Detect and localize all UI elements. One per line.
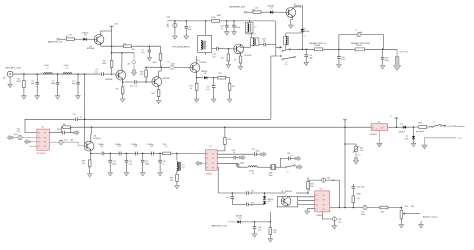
capacitor C26 shunt (159, 153, 161, 160)
svg-text:2.2k: 2.2k (82, 163, 85, 165)
row3 right wire (49, 141, 59, 143)
wire row3 to IF chain (217, 162, 238, 164)
svg-text:ARDUINO_D2: ARDUINO_D2 (48, 41, 63, 44)
switch S1 pole A (282, 50, 284, 52)
arrow (278, 46, 281, 48)
svg-text:C21: C21 (118, 146, 121, 148)
svg-text:P8: P8 (212, 168, 214, 170)
IC U4 LM386 (315, 191, 330, 212)
resonator X1 (270, 164, 272, 169)
resistor R11 emitter (196, 77, 198, 79)
gray return wire + GND (425, 138, 457, 145)
IC U1 MC145152 (37, 129, 49, 150)
svg-text:100k: 100k (102, 63, 106, 65)
svg-text:U3: U3 (378, 121, 380, 123)
row3 : off-page arrow left (24, 139, 30, 144)
resistor R15 47k base (227, 49, 229, 54)
resistor R9 emitter (122, 82, 124, 87)
svg-text:R17: R17 (252, 9, 255, 11)
svg-text:P1: P1 (38, 133, 40, 135)
svg-text:56p: 56p (31, 83, 34, 85)
svg-text:470u: 470u (361, 214, 365, 216)
svg-text:D11: D11 (239, 218, 242, 220)
bypass loop with bead (339, 35, 357, 50)
capacitor C11 100n (233, 21, 235, 25)
svg-text:R5: R5 (66, 36, 68, 38)
svg-text:1:10: 1:10 (17, 131, 21, 133)
ground stub (420, 221, 422, 225)
svg-text:C5: C5 (130, 85, 132, 87)
svg-text:560p: 560p (112, 163, 116, 165)
wire out (388, 126, 403, 128)
wire (86, 38, 94, 40)
svg-text:1u: 1u (291, 155, 293, 157)
wire + off-page arrow right (236, 157, 240, 159)
svg-text:MC145152: MC145152 (37, 153, 46, 155)
svg-text:4.7u: 4.7u (258, 230, 262, 232)
resistor R21 1.8k (176, 171, 178, 175)
svg-text:P8: P8 (44, 146, 46, 148)
wire collector to +5V rail (90, 134, 92, 141)
wire emitter node (91, 151, 101, 154)
svg-text:P4: P4 (323, 200, 325, 202)
svg-text:BFR90A: BFR90A (163, 77, 171, 80)
wire (207, 77, 218, 79)
wire long vertical (344, 127, 346, 207)
wire + off-page arrow right (256, 153, 260, 155)
resistor R5 1.2k (66, 38, 74, 41)
ferrite bead L4 (174, 21, 176, 23)
svg-text:ARDUINO_D10: ARDUINO_D10 (212, 224, 228, 227)
svg-text:GND: GND (458, 138, 463, 140)
inductor L8 4.7uH (248, 166, 257, 167)
svg-text:ANTENNE_ATV: ANTENNE_ATV (230, 5, 246, 8)
resistor R30 1.5k (145, 70, 148, 77)
inductor L1 3.3uH (44, 73, 53, 74)
off-page arrow left row (195, 161, 201, 166)
svg-text:R14: R14 (212, 17, 215, 19)
wire audio output line (330, 207, 402, 209)
svg-text:LM78L05: LM78L05 (370, 134, 378, 136)
svg-text:1u: 1u (233, 152, 235, 154)
capacitor C19 series ladder (102, 152, 104, 156)
svg-text:BC547B: BC547B (94, 138, 101, 140)
capacitor C15 470u (338, 49, 340, 56)
capacitor C37 470u series on output (363, 205, 367, 209)
diode D7 1N4148 (270, 11, 273, 14)
svg-text:10: 10 (234, 59, 236, 61)
wire to switch (266, 45, 279, 48)
bypass cap C36 under U4 (322, 212, 332, 219)
capacitor C9 100n (185, 21, 187, 27)
wire branch (345, 144, 356, 147)
transistor Q2 BFR90A (116, 70, 126, 80)
capacitor C14 470p (305, 49, 307, 55)
wire + resistor R13 to ground (226, 77, 230, 79)
svg-text:P5: P5 (38, 142, 40, 144)
wire y67 node (146, 66, 170, 68)
svg-text:C35: C35 (356, 187, 359, 189)
capacitor C21 series (119, 152, 121, 156)
inductor L2 3.3uH (63, 73, 72, 74)
wire Q3 collector (158, 71, 160, 77)
resistor R17 1.2k (253, 11, 261, 14)
capacitor C7 0.1u to ground (148, 46, 150, 50)
fuse F2 NE/BUZ CORELCOM (2) (355, 48, 365, 51)
svg-text:10uH: 10uH (171, 64, 176, 66)
svg-text:P4: P4 (212, 158, 214, 160)
off-page arrow right (296, 165, 302, 170)
svg-text:C34: C34 (327, 178, 330, 180)
wire to Q4 base (174, 66, 190, 68)
arrow + label (442, 125, 446, 127)
svg-text:1.2n: 1.2n (129, 163, 133, 165)
svg-text:GEN_ATV_CH3: GEN_ATV_CH3 (5, 67, 21, 70)
svg-text:P6: P6 (212, 163, 214, 165)
wire row1 right (49, 132, 62, 134)
svg-text:D6: D6 (204, 73, 206, 75)
wire T2-T3 link (251, 33, 253, 38)
diode D6 1N4148 (204, 76, 207, 79)
svg-text:P3: P3 (315, 200, 317, 202)
svg-text:Q9: Q9 (281, 191, 283, 193)
svg-text:L1: L1 (47, 68, 49, 70)
capacitor C33 1n series (246, 203, 248, 207)
wire + gray arrow down (355, 152, 357, 158)
wire (121, 152, 135, 154)
wire (261, 11, 270, 13)
svg-text:BATTERIE: BATTERIE (400, 50, 409, 53)
capacitor C10 1u (226, 21, 228, 25)
svg-text:A1: A1 (3, 77, 5, 80)
svg-text:R100R: R100R (356, 45, 362, 47)
wire (273, 11, 286, 13)
svg-text:P6: P6 (44, 142, 46, 144)
svg-text:P7: P7 (206, 168, 208, 170)
row4 : off-page arrow left (29, 145, 37, 147)
svg-text:L3: L3 (168, 61, 170, 63)
svg-text:1u: 1u (182, 167, 184, 169)
capacitor C1 56p (36, 74, 38, 82)
wire osc bottom line (232, 204, 245, 206)
diode D5 1N4148 (83, 38, 86, 41)
capacitor C8 4.7u (213, 78, 215, 86)
capacitor C4 0.1u series (102, 72, 104, 76)
inductor L6 vertical (284, 36, 289, 45)
svg-text:BUF990: BUF990 (285, 191, 292, 193)
wire Q6 collector to T3 (241, 44, 251, 47)
svg-text:L8: L8 (252, 173, 254, 175)
svg-text:2.2u: 2.2u (338, 222, 342, 224)
wire from U2 down (217, 167, 219, 193)
capacitor C16 470u (382, 49, 384, 57)
wire to Q2 base (103, 73, 116, 75)
svg-text:100n: 100n (256, 151, 260, 153)
resistor R12 horizontal (218, 76, 226, 79)
resistor R2 75R vertical (23, 74, 25, 81)
svg-text:560p: 560p (240, 163, 244, 165)
wire +5V long rail (71, 126, 371, 128)
capacitor C17 1u series (76, 118, 78, 122)
row2 : off-page arrow left (7, 135, 13, 140)
diode D8 vertical (301, 29, 304, 32)
wire (137, 152, 151, 154)
wire to switch (276, 166, 285, 168)
wire to Q6 base (218, 48, 234, 50)
svg-text:A4: A4 (71, 139, 73, 142)
resistor R25 10k vertical (307, 177, 309, 182)
wire osc top line (218, 192, 246, 194)
svg-text:10k: 10k (310, 186, 313, 188)
svg-text:LM386: LM386 (316, 215, 322, 217)
svg-text:P2: P2 (212, 153, 214, 155)
transformer T1 FT37-43 (198, 35, 212, 52)
svg-text:10u: 10u (332, 180, 335, 182)
svg-text:P4: P4 (44, 138, 46, 140)
wire link (286, 32, 303, 34)
svg-text:10k: 10k (232, 86, 235, 88)
resistor R14 100R on rail (212, 20, 220, 23)
svg-text:0.1u: 0.1u (134, 85, 138, 87)
svg-text:1k: 1k (190, 88, 192, 90)
resistor R7 100k vertical (160, 46, 162, 53)
svg-text:U4: U4 (320, 189, 322, 191)
svg-text:FT50 BIF 4T: FT50 BIF 4T (246, 34, 257, 36)
off-page arrow right row1 (73, 130, 79, 135)
svg-text:560p: 560p (145, 163, 149, 165)
svg-text:P5: P5 (315, 204, 317, 206)
off-page arrow down (396, 49, 398, 56)
svg-text:A3: A3 (128, 62, 130, 65)
oscillator box (277, 197, 297, 207)
svg-text:470R: 470R (357, 193, 362, 195)
svg-text:10u: 10u (360, 32, 363, 34)
svg-text:100n: 100n (361, 187, 365, 189)
svg-text:P8: P8 (323, 209, 325, 211)
svg-text:L 7: L 7 (355, 30, 357, 32)
svg-text:4.7k: 4.7k (357, 198, 360, 200)
capacitor C22 shunt (125, 153, 127, 160)
svg-text:L7: L7 (255, 27, 257, 29)
wire Q2 collector (121, 53, 123, 71)
capacitor C29 shunt (236, 164, 240, 166)
+5V power symbol (395, 118, 397, 127)
pin node circle (57, 38, 59, 40)
svg-text:R10: R10 (152, 93, 155, 95)
ferrite bead L3 (170, 65, 174, 69)
wire y54 +12V to Q2 collector (112, 52, 134, 54)
wire to Q3 base (136, 81, 152, 83)
capacitor C31 1n series (246, 191, 248, 195)
capacitor C5 0.1u series (134, 80, 136, 84)
wire (228, 221, 238, 223)
IC U3 LM78L05 (371, 124, 387, 131)
diode D9 (403, 126, 406, 129)
svg-text:P1: P1 (315, 195, 317, 197)
svg-text:2.2k: 2.2k (360, 150, 363, 152)
trimmer R24 2.2k (355, 147, 358, 152)
resistor R16 emitter (240, 54, 242, 56)
off-page link A3 (133, 53, 135, 61)
svg-text:D5: D5 (85, 34, 87, 36)
capacitor C13 1n series (264, 43, 266, 47)
capacitor C25 series (152, 152, 154, 156)
capacitor C20 shunt (109, 153, 111, 160)
capacitor C18 series row1 (63, 131, 65, 135)
wire main rail (290, 48, 398, 50)
resistor R20 4.7 (163, 152, 171, 155)
wire T3 out (259, 44, 264, 46)
svg-text:1u: 1u (80, 116, 82, 118)
resistor R27 10R (380, 206, 388, 209)
resistor R10 emitter (158, 86, 160, 89)
wire row out B (217, 157, 233, 159)
ground (173, 36, 178, 39)
wire row out A (217, 153, 254, 155)
wire pot to ground (400, 219, 402, 225)
capacitor C28 series (234, 156, 236, 160)
wire Q5 emitter node (197, 72, 204, 77)
wire (241, 221, 271, 223)
transistor Q9 oscillator (281, 196, 291, 206)
svg-text:P1: P1 (206, 153, 208, 155)
svg-text:R23: R23 (419, 123, 422, 125)
varactor D10 BB139 (264, 193, 266, 196)
wire to U2 (171, 152, 206, 154)
svg-text:C17: C17 (73, 114, 76, 116)
coupling cap A4 (59, 140, 63, 144)
ground (147, 58, 152, 61)
capacitor C27 series (254, 152, 256, 156)
svg-text:50/75: 50/75 (17, 81, 22, 83)
capacitor C2 180p (57, 74, 59, 82)
svg-text:C23: C23 (134, 146, 137, 148)
transformer T2 (249, 21, 251, 23)
wire main RF line (13, 73, 101, 75)
transistor Q4 BFR90A (94, 35, 104, 45)
capacitor C30 upper branch (280, 158, 288, 167)
wire (77, 118, 271, 120)
svg-text:offset: offset (357, 154, 362, 157)
feedback loop with cap C34 (309, 180, 321, 191)
svg-text:0.1u: 0.1u (141, 52, 145, 54)
wire up to oscillator (269, 212, 271, 222)
svg-text:10n: 10n (213, 56, 216, 58)
svg-text:BFR90A: BFR90A (87, 47, 95, 50)
capacitor C12 10n series (216, 47, 218, 51)
svg-text:1n: 1n (162, 163, 164, 165)
svg-text:R12: R12 (219, 73, 222, 75)
svg-text:0.47u: 0.47u (14, 134, 19, 136)
switch S1 pole B (282, 59, 284, 61)
RC zobel branch : capacitor C35 100n (352, 184, 354, 187)
wire emitter line (101, 43, 124, 47)
svg-text:R6: R6 (124, 43, 126, 45)
svg-text:R100R: R100R (315, 45, 321, 47)
resistor R18 10k parallel above (61, 127, 62, 132)
wire T1 feed (205, 21, 207, 36)
wire RX return vertical (270, 56, 272, 119)
transistor Q7 BFR90A (286, 7, 296, 17)
wire (132, 45, 161, 47)
transformer T4 (176, 153, 178, 160)
svg-text:BC547B: BC547B (245, 55, 252, 57)
resistor R8 100k bias vertical (110, 60, 113, 67)
resistor R22 100k from +5V rail (224, 127, 226, 137)
wire (406, 126, 418, 128)
svg-text:P3: P3 (38, 138, 40, 140)
svg-text:NE612: NE612 (207, 174, 213, 176)
svg-text:180p: 180p (51, 83, 55, 85)
wire collector to +12V (101, 31, 112, 36)
svg-text:R18: R18 (57, 129, 60, 131)
wire (104, 152, 119, 154)
svg-text:100k: 100k (227, 139, 231, 141)
wire (59, 38, 67, 40)
svg-text:U1: U1 (41, 126, 43, 128)
svg-text:S3: S3 (433, 122, 435, 124)
wire (248, 192, 286, 194)
svg-text:C27: C27 (252, 148, 255, 150)
transistor Q6 BC547B (234, 44, 244, 54)
wire T1 secondary out (212, 48, 216, 50)
svg-text:1u: 1u (221, 28, 223, 30)
svg-text:470u: 470u (341, 59, 345, 61)
svg-text:L5: L5 (263, 41, 265, 43)
svg-text:S2: S2 (287, 171, 289, 173)
off-page arrow right (295, 156, 301, 161)
wire (153, 152, 163, 154)
svg-text:455k: 455k (269, 175, 273, 177)
wire top link (25, 119, 75, 132)
svg-text:10k: 10k (63, 124, 66, 126)
wire rail drop (275, 21, 277, 45)
power tick +5V on rail (344, 120, 346, 127)
resistor R23 pont (419, 126, 427, 129)
capacitor C38 4.7u (254, 222, 256, 227)
resistor R6 10k (124, 45, 132, 48)
svg-text:10k: 10k (132, 49, 135, 51)
svg-text:10k: 10k (273, 232, 276, 234)
svg-text:2.2n: 2.2n (226, 197, 230, 199)
svg-text:P2: P2 (323, 195, 325, 197)
svg-text:pont div R: pont div R (416, 130, 425, 133)
wire ground pin (378, 130, 380, 143)
svg-text:C19: C19 (100, 146, 103, 148)
svg-text:4.7: 4.7 (165, 146, 168, 148)
resistor R26 4.7k (352, 196, 355, 203)
wire lower switch feed (271, 55, 278, 57)
svg-text:R9: R9 (116, 88, 118, 90)
wire bias drop (145, 67, 147, 70)
coupling cap A3 (18, 136, 22, 140)
svg-text:C25: C25 (150, 146, 153, 148)
svg-text:0.1u: 0.1u (64, 140, 68, 142)
svg-text:1N5817: 1N5817 (399, 132, 405, 134)
wire +12V rail (167, 20, 275, 22)
svg-text:BFR90A: BFR90A (106, 78, 114, 81)
fuse F1 NE/BUZ CORELCOM (1) (314, 48, 323, 51)
resistor R29 10k (269, 222, 271, 228)
wire emitter to ground (292, 17, 294, 19)
capacitor C23 series (135, 152, 137, 156)
svg-text:D9: D9 (401, 123, 403, 125)
svg-text:1N4148: 1N4148 (303, 31, 309, 33)
svg-text:U2: U2 (210, 146, 212, 148)
capacitor C3 56p (77, 74, 79, 82)
wire Q2 emitter (123, 80, 134, 82)
switch S3 (427, 126, 432, 128)
